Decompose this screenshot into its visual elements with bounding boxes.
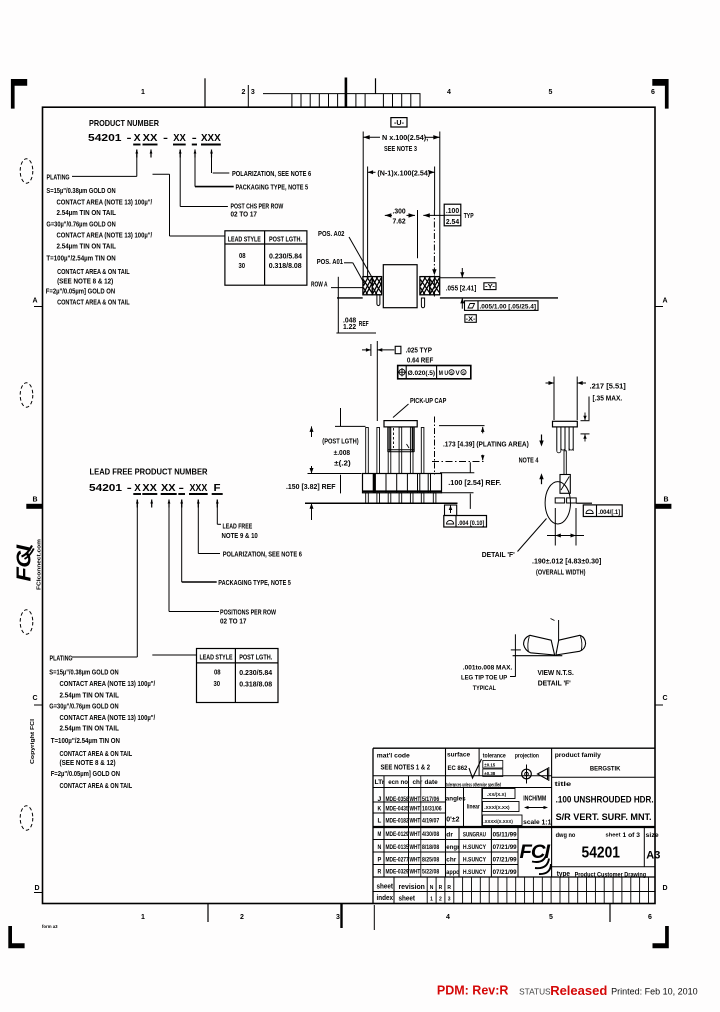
svg-text:8/18/08: 8/18/08 — [422, 844, 439, 851]
projection cell — [515, 753, 549, 784]
svg-text:PLATING: PLATING — [47, 172, 70, 181]
svg-text:.XX/(X.X): .XX/(X.X) — [487, 792, 507, 797]
svg-text:form a3: form a3 — [42, 924, 58, 929]
svg-text:.100 [2.54] REF.: .100 [2.54] REF. — [448, 478, 501, 487]
leader polarization 1 — [212, 158, 312, 179]
svg-text:POS. A02: POS. A02 — [318, 229, 344, 238]
svg-text:DETAIL 'F': DETAIL 'F' — [482, 550, 515, 559]
svg-text:(SEE NOTE 8 & 12): (SEE NOTE 8 & 12) — [60, 758, 117, 767]
dim .048 1.22 REF — [336, 277, 376, 333]
surface cell — [447, 751, 482, 778]
svg-text:T=100µ"/2.54µm TIN ON: T=100µ"/2.54µm TIN ON — [51, 736, 120, 745]
plan view right pin 1 — [420, 277, 430, 295]
pcb seating line — [305, 502, 458, 504]
detail F toe-up dim — [461, 634, 521, 692]
svg-text:6: 6 — [651, 89, 655, 96]
svg-text:sheet: sheet — [377, 884, 394, 891]
matl code cell — [377, 753, 430, 772]
row A datum line — [337, 297, 558, 299]
svg-text:6: 6 — [648, 914, 652, 921]
svg-text:engr: engr — [446, 844, 460, 851]
svg-text:.173 [4.39] (PLATING AREA): .173 [4.39] (PLATING AREA) — [443, 442, 529, 449]
svg-text:Released: Released — [550, 983, 607, 998]
svg-text:STATUS:: STATUS: — [519, 986, 553, 996]
detail F left leg wing — [524, 635, 555, 655]
svg-text:Printed: Feb 10, 2010: Printed: Feb 10, 2010 — [611, 987, 698, 997]
plating text block 2 — [49, 653, 155, 790]
front view solder legs — [366, 493, 436, 503]
svg-text:TYP: TYP — [464, 213, 474, 220]
svg-text:MDE-0129: MDE-0129 — [386, 831, 409, 838]
dim N x.100(2.54) — [363, 132, 440, 277]
svg-text:Copyright FCI: Copyright FCI — [30, 718, 36, 764]
svg-text:.001to.008 MAX.: .001to.008 MAX. — [463, 665, 513, 672]
svg-text:SEE NOTES 1 & 2: SEE NOTES 1 & 2 — [381, 763, 431, 772]
detail circle — [545, 482, 570, 524]
svg-text:1:1: 1:1 — [542, 818, 553, 827]
svg-text:30: 30 — [214, 679, 221, 688]
leader lead free note — [217, 500, 258, 540]
lead free heading — [89, 467, 221, 495]
svg-text:LEAD STYLE: LEAD STYLE — [200, 653, 233, 662]
svg-text:.300: .300 — [393, 209, 406, 216]
bottom zone ticks — [208, 903, 610, 930]
svg-text:.100 UNSHROUDED HDR.: .100 UNSHROUDED HDR. — [556, 795, 654, 806]
front view body — [363, 474, 442, 493]
svg-text:tolerance: tolerance — [483, 753, 506, 760]
svg-text:(SEE NOTE 8 & 12): (SEE NOTE 8 & 12) — [57, 276, 114, 285]
dim .100 [2.54] REF — [440, 462, 501, 509]
pick-up cap — [384, 421, 417, 452]
svg-text:.055 [2.41]: .055 [2.41] — [446, 285, 477, 292]
svg-text:B: B — [32, 497, 37, 504]
svg-text:05/11/99: 05/11/99 — [493, 832, 517, 839]
svg-text:LEAD FREE PRODUCT NUMBER: LEAD FREE PRODUCT NUMBER — [90, 467, 208, 477]
svg-text:MDE-0182: MDE-0182 — [386, 818, 409, 825]
svg-text:revision: revision — [399, 884, 425, 891]
svg-text:PLATING: PLATING — [50, 653, 73, 662]
end view feet — [555, 498, 592, 503]
svg-text:WHT: WHT — [410, 869, 421, 876]
title cell — [555, 781, 654, 823]
pin centerline (phantom) — [432, 210, 436, 298]
svg-text:TYPICAL: TYPICAL — [473, 685, 496, 692]
svg-text:J: J — [378, 796, 382, 803]
plan view right pin 2 — [430, 277, 440, 295]
svg-text:-Y-: -Y- — [485, 283, 495, 290]
svg-text:C: C — [662, 695, 667, 702]
dim .100 / 2.54 TYP — [423, 204, 474, 226]
svg-text:3: 3 — [336, 914, 340, 921]
svg-text:F=2µ"/0.05µm] GOLD ON: F=2µ"/0.05µm] GOLD ON — [51, 769, 120, 778]
svg-text:±0.38: ±0.38 — [484, 771, 496, 776]
svg-text:XXX: XXX — [190, 482, 208, 494]
svg-text:N: N — [430, 885, 434, 891]
dwg no cell — [556, 832, 661, 862]
svg-text:B: B — [663, 497, 668, 504]
svg-text:CONTACT AREA & ON TAIL: CONTACT AREA & ON TAIL — [57, 267, 130, 276]
svg-text:CONTACT AREA & ON TAIL: CONTACT AREA & ON TAIL — [60, 781, 133, 790]
product number heading — [88, 118, 221, 144]
svg-text:POLARIZATION, SEE NOTE 6: POLARIZATION, SEE NOTE 6 — [223, 552, 302, 559]
datum -X- — [465, 315, 476, 323]
svg-text:H.SUNCY: H.SUNCY — [463, 856, 486, 863]
svg-text:VIEW N.T.S.: VIEW N.T.S. — [538, 668, 574, 677]
dim (N-1)x.100(2.54) — [368, 167, 435, 277]
svg-text:.005/1.00 [.05/25.4]: .005/1.00 [.05/25.4] — [480, 305, 537, 311]
svg-text:2.54µm TIN ON TAIL: 2.54µm TIN ON TAIL — [60, 723, 120, 732]
svg-text:PACKAGING TYPE, NOTE 5: PACKAGING TYPE, NOTE 5 — [236, 184, 309, 191]
dim .173 [4.39] plating area — [432, 426, 529, 462]
dim .150 [3.82] REF — [286, 474, 362, 521]
svg-text:3: 3 — [448, 897, 451, 903]
svg-text:G=30µ"/0.76µm GOLD ON: G=30µ"/0.76µm GOLD ON — [49, 702, 118, 711]
svg-text:-: - — [192, 132, 198, 144]
svg-text:X: X — [134, 482, 141, 494]
svg-text:-: - — [127, 132, 133, 144]
sheet frame — [43, 107, 656, 903]
datum -U- — [391, 118, 407, 127]
end view cap — [553, 421, 578, 427]
svg-text:±.008: ±.008 — [334, 450, 351, 457]
svg-text:0'±2: 0'±2 — [446, 817, 459, 824]
svg-text:REF: REF — [359, 321, 369, 328]
FCI logo — [520, 841, 552, 874]
svg-text:N: N — [378, 844, 382, 851]
svg-text:R: R — [378, 869, 382, 876]
svg-text:POST CHS PER ROW: POST CHS PER ROW — [231, 204, 284, 211]
svg-text:1: 1 — [141, 89, 145, 96]
svg-text:PDM: Rev:R: PDM: Rev:R — [437, 984, 509, 998]
svg-text:-: - — [179, 482, 185, 494]
svg-text:WHT: WHT — [410, 796, 421, 803]
svg-text:WHT: WHT — [410, 856, 421, 863]
dim [.35 MAX — [581, 396, 623, 442]
svg-text:date: date — [425, 779, 439, 786]
svg-text:02 TO 17: 02 TO 17 — [231, 212, 257, 219]
svg-text:MDE-0435: MDE-0435 — [386, 805, 409, 812]
svg-text:[.35 MAX.: [.35 MAX. — [593, 396, 623, 403]
svg-text:M U: M U — [439, 370, 449, 377]
svg-text:POST LGTH.: POST LGTH. — [239, 653, 272, 662]
svg-text:S=15µ"/0.38µm GOLD ON: S=15µ"/0.38µm GOLD ON — [49, 668, 118, 677]
phantom last pin centerline — [434, 417, 436, 475]
svg-text:MDE-0329: MDE-0329 — [386, 869, 409, 876]
svg-text:POST LGTH.: POST LGTH. — [269, 235, 302, 244]
svg-text:CONTACT AREA (NOTE 13) 100µ"/: CONTACT AREA (NOTE 13) 100µ"/ — [60, 679, 156, 688]
svg-text:08: 08 — [214, 667, 221, 676]
svg-text:CONTACT AREA (NOTE 13) 100µ"/: CONTACT AREA (NOTE 13) 100µ"/ — [57, 230, 153, 239]
detail F right leg wing — [556, 635, 586, 655]
top zone numbers — [141, 89, 655, 96]
svg-text:S: S — [450, 370, 453, 375]
lead free field ticks — [136, 500, 219, 508]
svg-text:8/25/08: 8/25/08 — [422, 856, 439, 863]
svg-text:size: size — [646, 832, 659, 839]
svg-text:CONTACT AREA & ON TAIL: CONTACT AREA & ON TAIL — [57, 298, 130, 307]
end view pins under cap — [557, 427, 573, 453]
svg-text:linear: linear — [467, 804, 480, 811]
leader packaging type 1 — [195, 150, 308, 192]
svg-text:.XXXX/(X.XXX): .XXXX/(X.XXX) — [483, 819, 513, 824]
lead style table 1 — [225, 231, 307, 285]
title block outline — [373, 748, 655, 903]
svg-text:F: F — [214, 482, 222, 494]
svg-text:XX: XX — [161, 482, 176, 494]
svg-text:07/21/99: 07/21/99 — [493, 869, 517, 876]
svg-text:DETAIL 'F': DETAIL 'F' — [538, 679, 571, 688]
leader packaging 2 — [182, 500, 291, 588]
svg-text:54201: 54201 — [582, 845, 621, 862]
svg-text:product family: product family — [555, 752, 601, 759]
svg-text:1.22: 1.22 — [343, 324, 356, 331]
dim (POST LGTH) — [310, 408, 366, 474]
svg-text:0.230/5.84: 0.230/5.84 — [239, 668, 272, 677]
svg-text:ROW A: ROW A — [311, 279, 328, 288]
svg-text:4: 4 — [447, 89, 451, 96]
end view body section — [560, 475, 570, 494]
tolerances note — [446, 783, 501, 789]
leader positions 2 — [169, 500, 276, 626]
svg-text:SUNGRAU: SUNGRAU — [463, 832, 486, 839]
plan view pin A02 — [372, 277, 381, 295]
dim .217 [5.51] — [546, 377, 626, 421]
revision table rows — [378, 796, 442, 876]
POS. A02 label — [318, 229, 378, 287]
top margin scale comb — [205, 78, 421, 108]
svg-text:H.SUNCY: H.SUNCY — [463, 844, 486, 851]
lead free underlines — [133, 493, 222, 495]
svg-text:BERGSTIK: BERGSTIK — [590, 766, 621, 773]
plating text block 1 — [46, 172, 152, 306]
svg-text:.217 [5.51]: .217 [5.51] — [590, 384, 626, 391]
svg-text:2.54: 2.54 — [446, 219, 459, 226]
form number — [42, 924, 58, 929]
svg-text:±0.15: ±0.15 — [484, 763, 496, 768]
svg-text:D: D — [34, 885, 39, 892]
svg-text:5/22/08: 5/22/08 — [422, 869, 439, 876]
detail F pin tip — [551, 619, 559, 641]
svg-text:1: 1 — [141, 914, 145, 921]
svg-text:(N-1)x.100(2.54): (N-1)x.100(2.54) — [377, 170, 430, 177]
svg-text:XX: XX — [143, 132, 158, 144]
svg-text:FCIconnect.com: FCIconnect.com — [37, 539, 43, 590]
svg-text:5: 5 — [549, 89, 553, 96]
svg-text:5/17/06: 5/17/06 — [422, 796, 439, 803]
leader plating 1 — [72, 150, 137, 177]
svg-text:3: 3 — [251, 89, 255, 96]
svg-text:type: type — [557, 869, 571, 878]
POS. A01 label — [317, 257, 364, 283]
svg-text:0.318/8.08: 0.318/8.08 — [239, 680, 272, 689]
margin punch holes — [20, 159, 33, 830]
svg-text:angles: angles — [446, 796, 466, 803]
svg-text:sheet: sheet — [399, 896, 416, 903]
svg-text:2: 2 — [240, 914, 244, 921]
svg-text:dr: dr — [446, 832, 453, 839]
zone letters left A B C D — [26, 298, 42, 893]
svg-text:MDE-0358: MDE-0358 — [386, 796, 409, 803]
svg-text:.XXX/(X.XX): .XXX/(X.XX) — [484, 805, 510, 810]
svg-text:S=15µ"/0.38µm GOLD ON: S=15µ"/0.38µm GOLD ON — [46, 186, 115, 195]
corner crop marks — [8, 79, 669, 948]
svg-text:-: - — [127, 482, 133, 494]
svg-text:Product Customer Drawing: Product Customer Drawing — [575, 871, 647, 878]
svg-text:S: S — [462, 370, 465, 375]
bottom zone numbers — [141, 914, 652, 921]
view nts label — [538, 668, 574, 688]
svg-text:INCH/MM: INCH/MM — [523, 794, 546, 803]
svg-text:MDE-0277: MDE-0277 — [386, 856, 409, 863]
svg-text:SEE NOTE 3: SEE NOTE 3 — [384, 144, 417, 153]
svg-text:H.SUNCY: H.SUNCY — [463, 869, 486, 876]
dim .025 TYP / 0.64 REF — [362, 341, 434, 421]
svg-text:X: X — [134, 132, 141, 144]
svg-text:±(.2): ±(.2) — [334, 461, 351, 468]
title block grid — [373, 748, 655, 903]
svg-text:mat'l code: mat'l code — [377, 753, 410, 760]
svg-text:0.318/8.08: 0.318/8.08 — [269, 261, 302, 270]
svg-text:WHT: WHT — [410, 844, 421, 851]
svg-text:1 of 3: 1 of 3 — [623, 833, 641, 839]
dim .055 [2.41] — [440, 268, 496, 309]
flatness feature control frame — [465, 301, 539, 311]
plan view pin tail left — [377, 295, 380, 306]
dim .300 / 7.62 — [385, 209, 418, 259]
leader positions per row 1 — [180, 150, 283, 219]
svg-text:0.230/5.84: 0.230/5.84 — [269, 251, 302, 260]
svg-text:2: 2 — [439, 897, 442, 903]
plan view pin A01 — [363, 277, 372, 295]
svg-text:07/21/99: 07/21/99 — [493, 856, 517, 863]
svg-text:appd: appd — [446, 869, 459, 876]
svg-text:tolerances unless otherwise sp: tolerances unless otherwise specified — [446, 783, 501, 789]
svg-text:L: L — [378, 818, 382, 825]
leader polarization 2 — [198, 500, 302, 559]
svg-text:10/31/06: 10/31/06 — [422, 805, 442, 812]
plating extent arrows — [539, 435, 543, 485]
sheet index rows — [377, 884, 452, 903]
svg-text:LEAD STYLE: LEAD STYLE — [228, 235, 261, 244]
leader lead style table 1 — [153, 174, 225, 236]
svg-text:WHT: WHT — [410, 818, 421, 825]
svg-text:NOTE 9 & 10: NOTE 9 & 10 — [222, 533, 258, 540]
svg-text:PACKAGING TYPE, NOTE 5: PACKAGING TYPE, NOTE 5 — [218, 580, 291, 587]
position feature control frame — [398, 366, 471, 379]
svg-text:ecn no: ecn no — [388, 779, 408, 786]
svg-text:54201: 54201 — [88, 132, 122, 144]
svg-text:.150 [3.82] REF: .150 [3.82] REF — [286, 484, 336, 491]
svg-text:(OVERALL WIDTH): (OVERALL WIDTH) — [536, 570, 586, 577]
svg-text:CONTACT AREA (NOTE 13) 100µ"/: CONTACT AREA (NOTE 13) 100µ"/ — [57, 197, 153, 206]
svg-text:PICK-UP CAP: PICK-UP CAP — [410, 396, 446, 405]
svg-text:.004 [0.10]: .004 [0.10] — [458, 520, 485, 527]
svg-text:XXX: XXX — [201, 132, 221, 144]
svg-text:M: M — [378, 831, 382, 838]
svg-text:K: K — [378, 805, 382, 812]
dim .190 overall width — [532, 508, 601, 577]
svg-text:4/30/08: 4/30/08 — [422, 831, 439, 838]
svg-text:title: title — [555, 781, 572, 788]
svg-text:WHT: WHT — [410, 831, 421, 838]
type row — [557, 869, 646, 879]
svg-text:surface: surface — [447, 751, 470, 758]
svg-text:CONTACT AREA & ON TAIL: CONTACT AREA & ON TAIL — [60, 749, 133, 758]
profile frame .004/[.1] — [583, 505, 622, 517]
svg-text:2.54µm TIN ON TAIL: 2.54µm TIN ON TAIL — [60, 690, 120, 699]
angles cell — [446, 796, 466, 824]
svg-text:projection: projection — [515, 753, 539, 760]
svg-text:2: 2 — [242, 89, 246, 96]
svg-text:scale: scale — [523, 819, 540, 826]
svg-text:chr: chr — [413, 779, 423, 786]
svg-text:S/R VERT. SURF. MNT.: S/R VERT. SURF. MNT. — [556, 812, 652, 823]
pdm revision status — [437, 983, 698, 998]
svg-text:T=100µ"/2.54µm TIN ON: T=100µ"/2.54µm TIN ON — [46, 254, 115, 263]
svg-text:EC 862: EC 862 — [448, 765, 468, 772]
margin Copyright FCI text — [30, 718, 36, 764]
svg-text:XX: XX — [142, 482, 157, 494]
svg-text:-U-: -U- — [394, 118, 404, 127]
dim format boxes — [483, 789, 523, 826]
svg-text:2.54µm TIN ON TAIL: 2.54µm TIN ON TAIL — [57, 208, 117, 217]
plan view pin tail right — [421, 298, 424, 308]
svg-text:index: index — [377, 895, 394, 902]
svg-text:4/19/07: 4/19/07 — [422, 818, 439, 825]
svg-text:Ø.020(.5): Ø.020(.5) — [408, 370, 436, 377]
leader table 2 — [152, 654, 196, 656]
front view pins — [366, 427, 424, 473]
svg-text:G=30µ"/0.76µm GOLD ON: G=30µ"/0.76µm GOLD ON — [46, 219, 115, 228]
note 4 — [519, 456, 539, 465]
leader plating 2 — [72, 500, 137, 658]
svg-text:A3: A3 — [646, 850, 660, 862]
svg-text:-: - — [163, 132, 169, 144]
svg-text:4: 4 — [446, 914, 450, 921]
svg-text:02 TO 17: 02 TO 17 — [220, 618, 246, 625]
linear cell — [467, 804, 480, 811]
margin FCIconnect.com text — [37, 539, 43, 590]
revision table header — [375, 779, 439, 786]
svg-text:CONTACT AREA (NOTE 13) 100µ"/: CONTACT AREA (NOTE 13) 100µ"/ — [60, 713, 156, 722]
svg-text:5: 5 — [549, 914, 553, 921]
profile frame .004 [0.10] — [444, 505, 487, 527]
plan view body outline — [383, 265, 417, 308]
svg-text:.025 TYP: .025 TYP — [406, 347, 433, 354]
svg-text:FCI: FCI — [520, 841, 551, 863]
svg-text:sheet: sheet — [606, 833, 621, 839]
svg-text:2.54µm TIN ON TAIL: 2.54µm TIN ON TAIL — [57, 241, 117, 250]
tolerance cell — [483, 753, 506, 777]
svg-text:1: 1 — [430, 897, 433, 903]
svg-text:POS. A01: POS. A01 — [317, 257, 343, 266]
svg-text:A: A — [662, 298, 667, 305]
svg-text:chr: chr — [446, 856, 456, 863]
svg-text:WHT: WHT — [410, 805, 421, 812]
svg-text:7.62: 7.62 — [393, 218, 406, 225]
svg-text:0.64 REF: 0.64 REF — [407, 357, 434, 364]
product number 1 field ticks — [135, 150, 213, 158]
inch/mm cell — [523, 794, 552, 827]
margin FCI logo — [14, 544, 36, 581]
product family cell — [555, 752, 621, 773]
svg-text:.190±.012 [4.83±0.30]: .190±.012 [4.83±0.30] — [532, 559, 601, 566]
svg-text:30: 30 — [239, 261, 246, 270]
svg-text:LTr: LTr — [375, 779, 385, 786]
svg-text:P: P — [378, 856, 382, 863]
svg-text:LEAD FREE: LEAD FREE — [223, 524, 253, 531]
svg-text:R: R — [439, 885, 443, 891]
